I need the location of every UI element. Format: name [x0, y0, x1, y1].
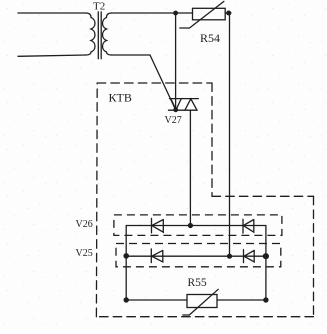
wire: secondary bottom lead	[112, 54, 151, 56]
resistor R54 (varistor) body	[193, 8, 226, 19]
svg-text:V26: V26	[76, 219, 93, 230]
svg-text:V27: V27	[165, 115, 182, 126]
wire: R55 row line left	[126, 299, 187, 301]
node: junction top right	[226, 11, 231, 16]
wire: V25 row line	[126, 255, 266, 257]
transformer T2 primary winding	[86, 13, 95, 55]
resistor R55 (varistor) body	[187, 295, 217, 308]
svg-text:R55: R55	[188, 277, 207, 289]
wire: left bus vertical	[125, 226, 127, 301]
svg-text:R54: R54	[200, 31, 220, 45]
wire: primary bottom lead	[18, 55, 86, 56]
dashed box V26	[114, 215, 282, 236]
diode V25 left	[151, 249, 163, 263]
resistor R54 diagonal stroke	[180, 1, 224, 28]
wire: R54 right lead	[225, 12, 231, 14]
transformer T2 secondary winding	[103, 13, 112, 55]
diode V25 right	[244, 250, 255, 263]
node: V26 row junction	[188, 223, 193, 228]
wire: vertical from top junction to V27 anode	[175, 13, 177, 110]
diode V26 right	[243, 219, 254, 233]
resistor R55 diagonal stroke	[183, 289, 218, 315]
svg-text:T2: T2	[93, 1, 105, 13]
wire: secondary top lead to R54	[112, 12, 193, 14]
svg-text:КТВ: КТВ	[109, 91, 132, 105]
wire: V27 output down to V26 row	[189, 110, 191, 225]
dashed box KTB outline	[96, 83, 313, 317]
node: R55 left junction	[124, 297, 129, 302]
node: V25 left junction	[123, 253, 129, 259]
node: junction top	[173, 11, 178, 16]
transformer T2 core	[98, 12, 101, 59]
node: R55 right junction	[263, 297, 268, 302]
node: V25 right junction	[263, 253, 269, 259]
wire: primary top lead	[18, 12, 86, 14]
node: V27 gate junction	[173, 107, 178, 112]
svg-text:V25: V25	[76, 248, 93, 259]
triac V27	[170, 98, 199, 100]
wire: right bus vertical	[265, 226, 267, 301]
node: V25 mid junction	[227, 254, 232, 259]
diode V26 left	[152, 218, 164, 233]
wire: diagonal gate lead to V27	[150, 55, 176, 110]
wire: R55 row line right	[217, 299, 266, 301]
wire: vertical from top-right junction down to V25 row	[229, 13, 231, 256]
wire: V26 row line	[126, 225, 266, 227]
dashed box V25	[116, 244, 281, 267]
